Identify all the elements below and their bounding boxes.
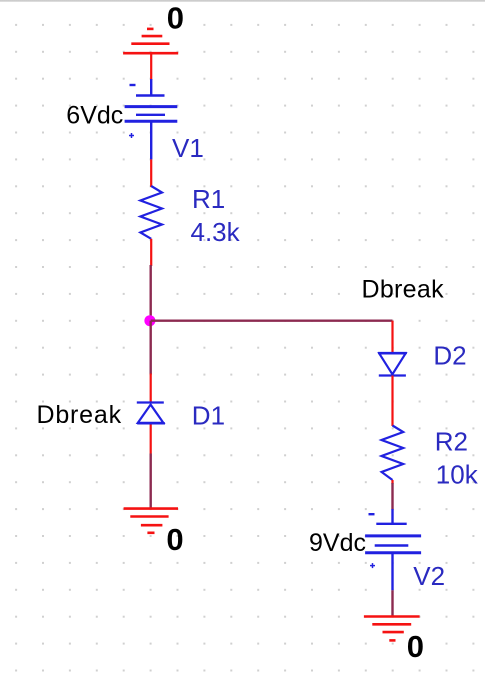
resistor R2: [382, 426, 404, 481]
svg-text:0: 0: [407, 629, 424, 664]
wire (maroon, R2 to V2): [391, 483, 393, 510]
svg-text:Dbreak: Dbreak: [362, 275, 445, 303]
V2 minus marker: [369, 513, 375, 515]
wire (maroon, junction to right branch): [151, 320, 393, 322]
wire / pin (D2 cathode to R2, red): [391, 376, 393, 427]
svg-text:D1: D1: [192, 400, 225, 430]
wire (maroon, V2 to right ground): [391, 590, 393, 617]
wire / pin (junction to D2 anode, red): [391, 321, 393, 353]
resistor R1: [140, 186, 162, 239]
diode D1 (cathode up): [137, 403, 165, 424]
svg-text:V2: V2: [413, 561, 445, 591]
svg-text:V1: V1: [172, 133, 204, 163]
svg-text:D2: D2: [433, 341, 466, 371]
wire (top ground pin to V1): [150, 53, 152, 80]
svg-text:6Vdc: 6Vdc: [66, 101, 123, 129]
ground 0 (bottom left): [124, 509, 178, 533]
voltage source V2 (9Vdc battery): [365, 509, 421, 590]
wire (maroon, D1 to left ground): [149, 454, 151, 510]
ground 0 (top, inverted): [123, 29, 178, 53]
svg-text:10k: 10k: [436, 460, 479, 490]
svg-text:9Vdc: 9Vdc: [309, 529, 366, 557]
V1 plus marker: [129, 133, 134, 138]
wire / pin (V1 to R1): [150, 159, 152, 187]
V2 plus marker: [370, 563, 375, 568]
junction node (magenta dot): [144, 315, 155, 326]
V1 minus marker: [130, 84, 136, 86]
svg-text:0: 0: [166, 522, 183, 557]
svg-text:0: 0: [167, 1, 184, 36]
wire / pin (R2 bottom, red stub): [391, 480, 393, 484]
wire / pin (R1 to junction, red stub): [150, 239, 152, 266]
wire (maroon, junction down toward D1): [149, 321, 151, 375]
wire / pin (D1 anode down, red): [150, 425, 152, 454]
ground 0 (bottom right): [364, 617, 420, 641]
diode D2 (cathode down): [378, 353, 407, 376]
svg-text:R2: R2: [435, 427, 468, 457]
svg-text:4.3k: 4.3k: [191, 217, 241, 247]
svg-text:Dbreak: Dbreak: [37, 401, 122, 429]
voltage source V1 (6Vdc battery): [125, 79, 178, 159]
wire (maroon, down to junction): [149, 265, 151, 321]
svg-text:R1: R1: [192, 184, 225, 214]
wire / pin (to D1 cathode, red): [150, 374, 152, 403]
